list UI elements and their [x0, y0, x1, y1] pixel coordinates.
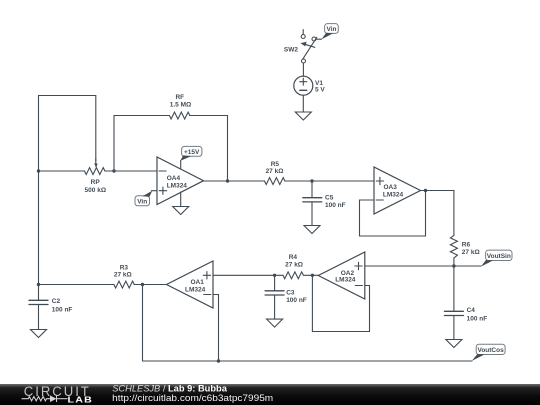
flag VoutCos	[472, 344, 505, 361]
capacitor C3	[265, 291, 284, 295]
wire R5 to OA3	[285, 180, 374, 182]
svg-text:+15V: +15V	[184, 149, 200, 156]
flag VoutSin	[481, 250, 512, 267]
svg-text:OA3: OA3	[384, 184, 398, 191]
OA1 plus	[203, 272, 210, 279]
wire OA1 feedback right	[213, 295, 219, 362]
wire V1 to ground	[302, 95, 304, 112]
resistor R6	[450, 235, 457, 258]
wire R4 left to node	[275, 274, 283, 276]
svg-text:LM324: LM324	[167, 183, 188, 190]
wire OA3 out down to R6	[453, 191, 455, 236]
svg-text:C3: C3	[286, 289, 295, 296]
node C3 top	[273, 274, 276, 277]
svg-text:OA1: OA1	[191, 279, 205, 286]
svg-text:100 nF: 100 nF	[286, 297, 307, 304]
capacitor C5	[303, 198, 322, 202]
node C5 top	[310, 179, 313, 182]
svg-text:RF: RF	[175, 94, 184, 101]
wire C3 stem	[274, 275, 276, 291]
wire node to RP	[39, 170, 85, 172]
wire throw2 to Vin flag	[316, 38, 322, 40]
OA3 plus	[376, 177, 383, 184]
OA4 power pin bottom	[180, 192, 182, 207]
switch SW2 throw stub	[302, 30, 304, 35]
switch SW2 throw circle 2	[312, 37, 316, 41]
svg-text:27 kΩ: 27 kΩ	[266, 168, 284, 175]
op-amp OA2	[318, 252, 365, 299]
wire OA2 feedback	[312, 275, 369, 331]
wire C5 stem top	[311, 181, 313, 198]
ground below C4	[446, 340, 462, 348]
svg-text:http://circuitlab.com/c6b3atpc: http://circuitlab.com/c6b3atpc7995m	[112, 393, 273, 403]
svg-text:RP: RP	[91, 179, 101, 186]
wire R6 bottom	[453, 258, 455, 266]
potentiometer RP	[85, 168, 105, 175]
wire feedback RF left	[114, 116, 169, 172]
footer bar	[0, 384, 540, 405]
wire OA1 output to node	[143, 284, 167, 286]
capacitor C4	[444, 311, 463, 315]
wire RP to node	[105, 170, 114, 172]
svg-text:500 kΩ: 500 kΩ	[85, 187, 106, 194]
wire OA4 +input stub	[152, 190, 158, 192]
wire C5 stem bottom	[311, 202, 313, 226]
capacitor C2	[29, 300, 48, 304]
node A	[37, 169, 40, 172]
svg-text:R5: R5	[271, 161, 280, 168]
ground below C5	[304, 226, 320, 234]
wire top-left loop to wiper	[39, 96, 96, 162]
op-amp OA1	[167, 261, 214, 308]
svg-text:C4: C4	[467, 307, 476, 314]
potentiometer RP wiper arrow	[95, 159, 97, 164]
node OA3 out	[424, 189, 427, 192]
wire feedback RF right	[190, 116, 228, 182]
OA2 minus	[355, 285, 362, 287]
wire R3 right	[134, 284, 142, 286]
svg-text:LM324: LM324	[335, 277, 356, 284]
OA4 plus	[159, 187, 166, 194]
OA2 plus	[355, 262, 362, 269]
ground below V1	[295, 112, 311, 120]
wire bottom bus	[143, 285, 473, 362]
OA4 minus	[159, 170, 166, 172]
ground below C3	[267, 319, 283, 327]
wire node to VoutSin flag	[454, 265, 481, 267]
ground below C2	[31, 330, 47, 338]
wire R3 left to node	[39, 284, 114, 286]
svg-text:LM324: LM324	[185, 287, 206, 294]
node OA2 out	[311, 274, 314, 277]
wire pole to V1	[302, 63, 304, 76]
node OA4 out	[226, 179, 229, 182]
svg-text:Vin: Vin	[137, 198, 147, 205]
resistor R5	[265, 178, 285, 185]
OA1 minus	[204, 294, 211, 296]
svg-text:OA4: OA4	[167, 175, 181, 182]
wire OA1 +input	[213, 274, 275, 276]
wire C2 stem	[38, 285, 40, 301]
svg-text:27 kΩ: 27 kΩ	[285, 262, 303, 269]
wire C3 bottom	[274, 295, 276, 319]
svg-text:C2: C2	[52, 298, 61, 305]
svg-text:100 nF: 100 nF	[467, 316, 488, 323]
svg-text:R4: R4	[289, 254, 298, 261]
svg-text:27 kΩ: 27 kΩ	[462, 249, 480, 256]
flag Vin at OA4	[135, 191, 152, 206]
op-amp OA4	[157, 157, 204, 205]
svg-text:100 nF: 100 nF	[52, 306, 73, 313]
svg-text:5 V: 5 V	[315, 87, 325, 94]
wire OA4 output	[204, 180, 265, 182]
svg-text:100 nF: 100 nF	[325, 202, 346, 209]
op-amp OA3	[374, 167, 421, 214]
wire OA3 feedback	[360, 191, 426, 237]
resistor R4	[283, 272, 303, 279]
flag Vin top	[321, 24, 338, 40]
node VoutSin	[452, 264, 455, 267]
logo squiggle wire	[22, 395, 68, 402]
flag +15V	[180, 146, 202, 161]
svg-text:C5: C5	[325, 195, 334, 202]
wire OA3 output	[421, 190, 454, 192]
svg-text:LAB: LAB	[68, 394, 94, 404]
voltage source V1	[294, 76, 313, 95]
wire C4 stem	[453, 266, 455, 311]
resistor R3	[114, 281, 134, 288]
switch SW2 pole circle	[302, 59, 306, 63]
switch SW2 throw circle 1	[301, 35, 305, 39]
ground below OA4	[173, 207, 189, 215]
wire C4 bottom	[453, 316, 455, 340]
svg-text:VoutCos: VoutCos	[477, 347, 504, 354]
svg-text:27 kΩ: 27 kΩ	[114, 272, 132, 279]
svg-text:R6: R6	[462, 242, 471, 249]
node B	[112, 169, 115, 172]
node OA1 out	[141, 283, 144, 286]
wire C2 bottom	[38, 305, 40, 330]
wire OA2 +input	[365, 265, 454, 267]
svg-text:SW2: SW2	[284, 47, 298, 54]
resistor RF	[169, 112, 189, 119]
svg-text:VoutSin: VoutSin	[487, 253, 511, 260]
switch SW2 lever	[303, 37, 317, 59]
svg-text:Vin: Vin	[327, 26, 337, 33]
wire left vertical main	[38, 96, 40, 285]
OA4 power pin top	[180, 161, 182, 170]
logo diode	[50, 395, 57, 402]
switch SW2 actuator arrow	[305, 44, 315, 47]
wire OA2 output	[303, 274, 318, 276]
svg-text:1.5 MΩ: 1.5 MΩ	[170, 101, 191, 108]
node bottom	[217, 359, 220, 362]
OA3 minus	[376, 199, 383, 201]
wire OA4 -input	[114, 170, 157, 172]
svg-text:R3: R3	[120, 264, 129, 271]
svg-text:LM324: LM324	[383, 192, 404, 199]
node C2 top	[37, 283, 40, 286]
